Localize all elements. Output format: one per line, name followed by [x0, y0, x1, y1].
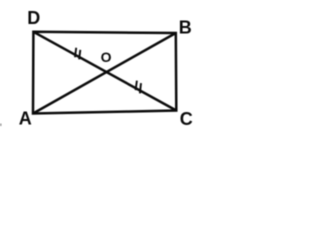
- svg-text:D: D: [27, 8, 40, 28]
- diagonal A to B: [33, 33, 176, 114]
- tick marks on segment DO: [75, 48, 76, 58]
- rectangle ABCD (sides): [33, 32, 176, 114]
- svg-text:B: B: [179, 18, 192, 38]
- edge artifact bottom-left: [0, 124, 2, 127]
- svg-text:O: O: [101, 49, 112, 65]
- svg-text:C: C: [180, 109, 193, 127]
- tick marks on segment OC: [136, 81, 137, 91]
- diagonal D to C: [33, 32, 176, 111]
- svg-text:A: A: [19, 108, 32, 127]
